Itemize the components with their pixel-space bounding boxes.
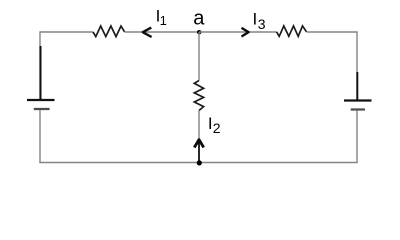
wire: right vertical upper segment [356, 31, 358, 72]
battery B2 top lead (right) [356, 72, 358, 100]
current arrow I3 (pointing right) [242, 28, 249, 37]
bottom junction dot [197, 160, 202, 165]
battery B2 short plate (-) [351, 108, 365, 110]
wire: top-left horizontal segment [40, 31, 93, 33]
wire: bottom horizontal [39, 162, 357, 164]
resistor (top-left, between left battery and node a) [93, 26, 125, 37]
resistor (top-right, between node a and right battery) [277, 26, 307, 36]
svg-text:3: 3 [258, 16, 266, 32]
wire: top middle-left segment (resistor to node a) [125, 31, 200, 33]
wire: left vertical upper segment [39, 31, 41, 100]
resistor (middle branch, vertical) [194, 81, 203, 111]
wire: top-right horizontal segment [307, 31, 358, 33]
wire: left vertical lower segment [39, 110, 41, 163]
svg-text:I: I [253, 9, 258, 28]
wire: middle vertical lower (resistor to bottom node) [198, 111, 200, 163]
battery B2 long plate (+) [344, 99, 372, 101]
node a junction dot [197, 30, 201, 34]
wire: right vertical lower segment [356, 111, 358, 163]
wire: middle vertical upper (node a to middle resistor) [198, 32, 200, 81]
svg-text:1: 1 [160, 13, 167, 28]
current arrow I1 (pointing left) [143, 28, 152, 37]
svg-text:2: 2 [213, 120, 221, 136]
battery B1 long plate (+) [27, 99, 55, 101]
battery B1 top lead (left) [40, 46, 42, 99]
current arrow I2 shaft (black, node to tip) [198, 141, 200, 162]
current arrow I2 (pointing up) [194, 140, 203, 148]
svg-text:a: a [193, 8, 205, 30]
wire: top middle-right segment (node a to right resistor) [199, 31, 277, 33]
battery B1 short plate (-) [34, 108, 50, 110]
